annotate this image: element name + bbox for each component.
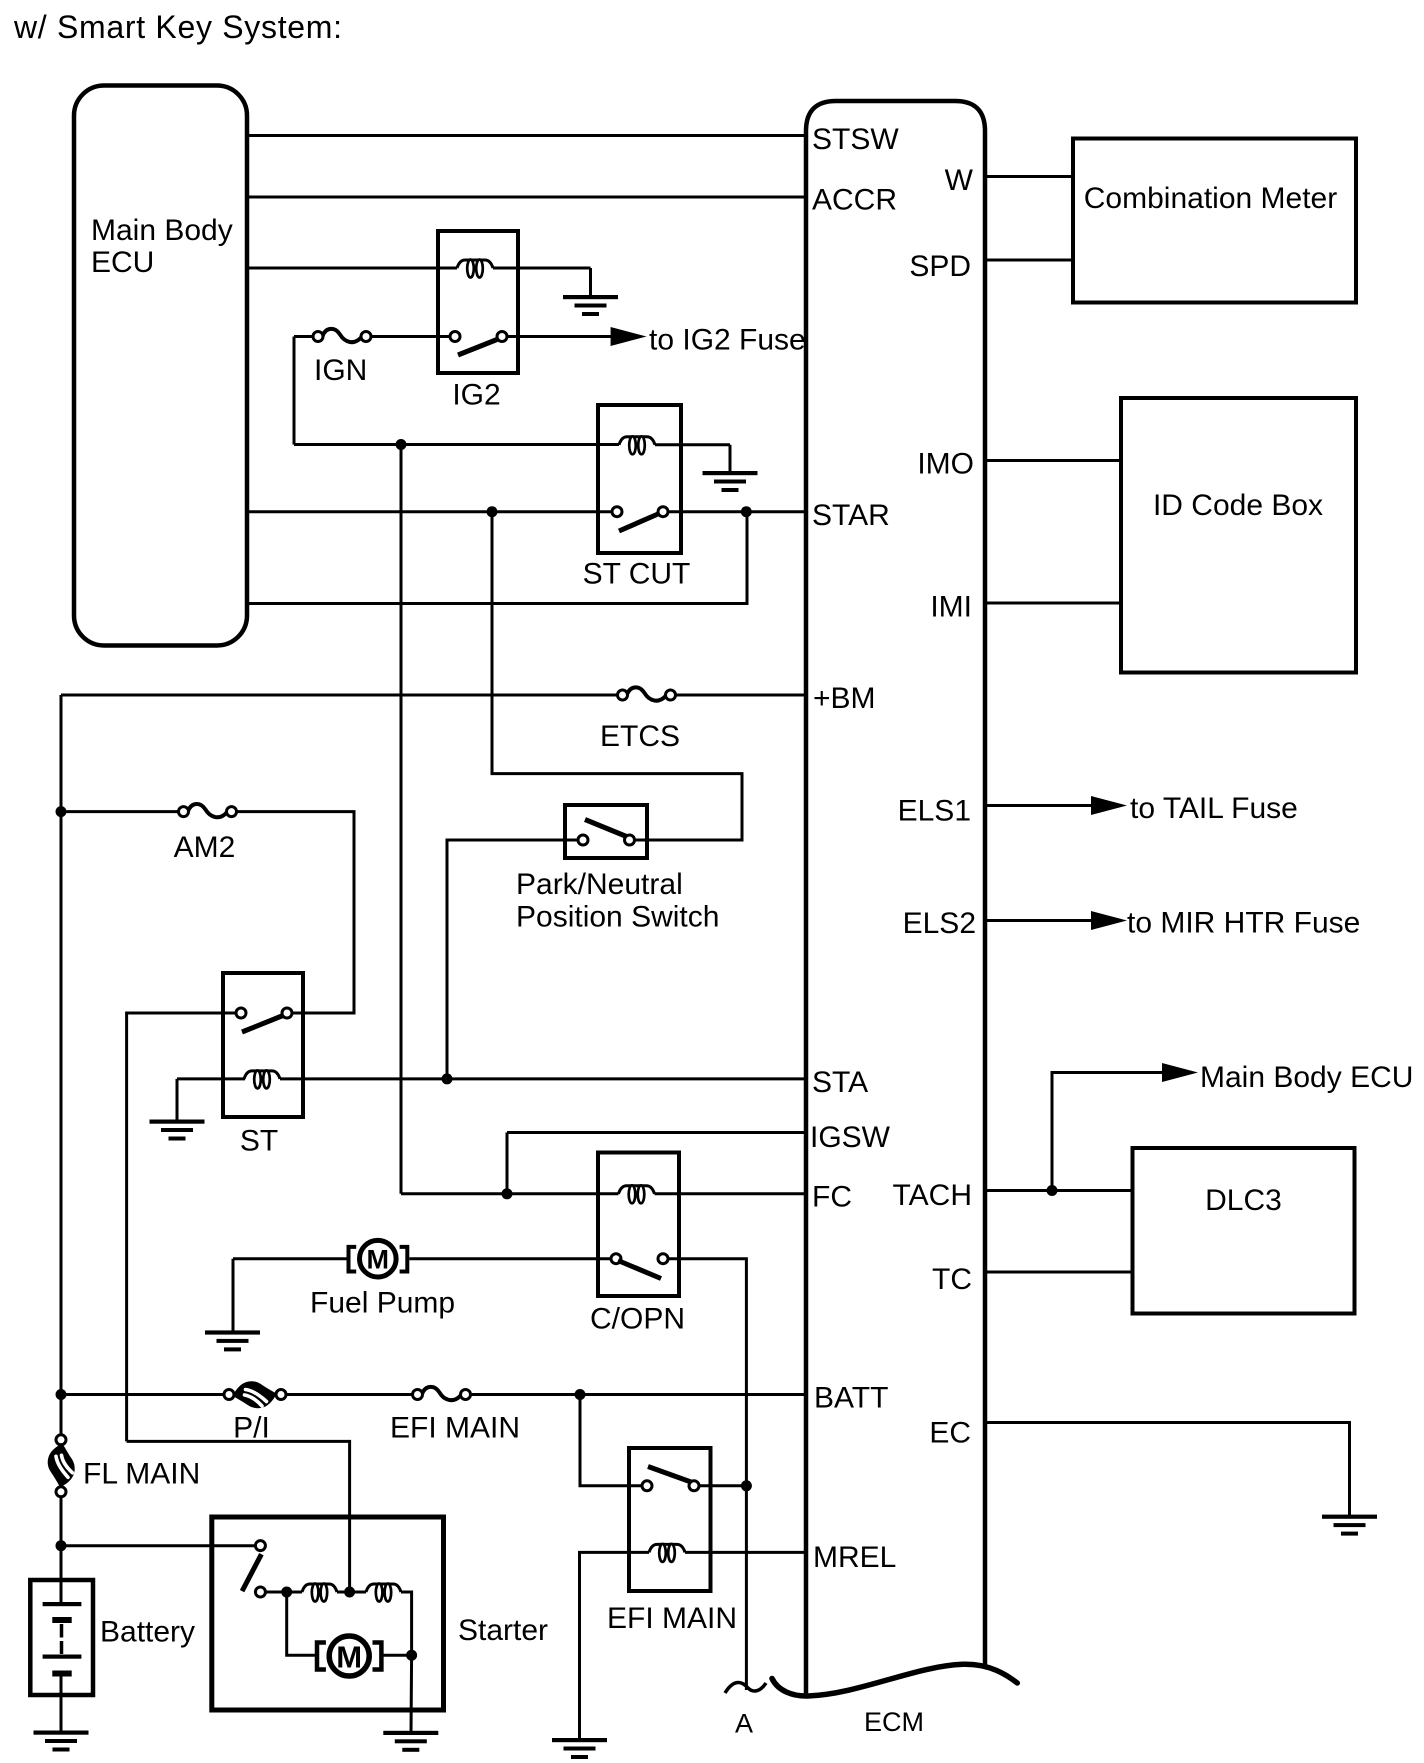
svg-text:DLC3: DLC3 (1205, 1184, 1282, 1217)
fuse AM2 (179, 804, 237, 817)
svg-text:Position Switch: Position Switch (516, 901, 719, 934)
ground battery ground (34, 1731, 89, 1752)
svg-text:BATT: BATT (814, 1382, 888, 1415)
wire TACH to MainBodyECU (1052, 1073, 1163, 1191)
svg-text:w/ Smart Key System:: w/ Smart Key System: (13, 9, 343, 45)
svg-text:Park/Neutral: Park/Neutral (516, 868, 683, 901)
fusible link FL MAIN (48, 1435, 75, 1497)
wire ST CUT coil feed (294, 443, 619, 446)
wire EFI switch to A wire (699, 1484, 746, 1487)
junction BATT left junction (56, 1389, 67, 1400)
svg-text:FL MAIN: FL MAIN (83, 1458, 200, 1491)
wire IG2 coil feed (247, 267, 457, 270)
arrow to IG2 Fuse (611, 327, 647, 346)
ECM box outline (open wavy bottom) (806, 101, 985, 1695)
ground IG2 coil ground (563, 295, 618, 316)
svg-text:to TAIL Fuse: to TAIL Fuse (1130, 792, 1298, 825)
svg-text:IG2: IG2 (452, 379, 500, 412)
relay ST CUT box (598, 405, 681, 553)
wire EC (985, 1423, 1350, 1517)
wire ELS2 (985, 919, 1092, 922)
wire W (985, 175, 1073, 178)
wire IG2 switch to arrow (507, 335, 612, 338)
DLC3 box (1133, 1148, 1355, 1314)
svg-text:ACCR: ACCR (812, 184, 897, 217)
relay ST CUT switch (612, 507, 668, 531)
wire BATT left (61, 1393, 229, 1396)
svg-text:ETCS: ETCS (600, 720, 680, 753)
wire C/OPN to motor (409, 1257, 611, 1260)
ground fuel pump ground (205, 1330, 260, 1351)
wire C/OPN to A wire (668, 1259, 746, 1690)
wire battery to ground (60, 1676, 63, 1733)
relay IG2 switch (450, 332, 507, 356)
svg-text:IGSW: IGSW (810, 1121, 891, 1154)
Battery box (30, 1580, 93, 1695)
wire motor left (233, 1257, 349, 1260)
fuse EFI MAIN (413, 1387, 471, 1400)
svg-text:C/OPN: C/OPN (590, 1303, 685, 1336)
junction solenoid dot1 (281, 1587, 292, 1598)
relay IG2 box (438, 231, 518, 373)
relay IG2 coil (457, 260, 493, 268)
svg-text:ELS1: ELS1 (898, 795, 971, 828)
relay EFI MAIN switch (642, 1467, 699, 1491)
wire MainBody to ST CUT switch (247, 510, 612, 513)
ground ST coil ground (150, 1120, 205, 1141)
junction STA junction (442, 1073, 453, 1084)
relay EFI MAIN box (629, 1448, 711, 1591)
junction STAR/PN junction (487, 506, 498, 517)
wire ST trunk to solenoid (127, 1441, 350, 1592)
svg-text:Main Body ECU: Main Body ECU (1200, 1061, 1413, 1094)
junction EFI relay junction (575, 1389, 586, 1400)
wire EFI relay switch feed (580, 1395, 642, 1486)
svg-text:IGN: IGN (314, 354, 367, 387)
wire ST switch left drop (127, 1013, 236, 1441)
svg-text:P/I: P/I (233, 1412, 270, 1445)
svg-text:EFI MAIN: EFI MAIN (390, 1412, 520, 1445)
junction motor out dot (406, 1650, 417, 1661)
starter solenoid coil 2 (366, 1584, 401, 1592)
relay EFI MAIN coil (649, 1544, 685, 1552)
fusible link P/I (224, 1381, 286, 1408)
fuel pump motor (349, 1240, 408, 1277)
wire IGSW (507, 1131, 806, 1134)
fuse IGN (313, 329, 371, 342)
starter switch (242, 1541, 265, 1597)
svg-text:TACH: TACH (893, 1179, 972, 1212)
wire STAR (668, 510, 806, 513)
wire IMI (985, 602, 1121, 605)
svg-text:STSW: STSW (812, 123, 899, 156)
arrow Main Body ECU arrow (1162, 1063, 1198, 1082)
ground EC ground (1322, 1515, 1377, 1536)
wire ST CUT ground drop (729, 445, 732, 473)
wire starter sw to coil (265, 1591, 286, 1594)
wire +BM feed (61, 694, 618, 697)
Main Body ECU box (74, 86, 247, 646)
junction IGN/STCUT junction (396, 439, 407, 450)
svg-text:EFI MAIN: EFI MAIN (607, 1602, 737, 1635)
wire left trunk (60, 695, 63, 1395)
svg-text:AM2: AM2 (174, 831, 236, 864)
relay ST switch (236, 1008, 292, 1032)
ECM bottom wave (772, 1664, 1017, 1696)
wire FL to battery (60, 1497, 63, 1602)
svg-text:ID Code Box: ID Code Box (1153, 489, 1323, 522)
svg-text:STAR: STAR (812, 499, 890, 532)
svg-text:ECM: ECM (864, 1707, 924, 1737)
svg-text:EC: EC (929, 1417, 971, 1450)
wire solenoid out (401, 1592, 412, 1655)
svg-text:ELS2: ELS2 (903, 907, 976, 940)
junction AM2 junction (56, 806, 67, 817)
svg-text:W: W (945, 164, 974, 197)
wire STAR to ParkNeutral (492, 512, 742, 840)
ID Code Box box (1121, 398, 1356, 673)
wire trunk to FL MAIN (60, 1395, 63, 1436)
junction starter junction (56, 1540, 67, 1551)
battery cells (43, 1602, 82, 1677)
svg-text:Battery: Battery (100, 1616, 195, 1649)
wire MainBody loop to STAR (247, 512, 747, 604)
wire ACCR (247, 196, 806, 199)
wire IGN drop (293, 337, 296, 445)
svg-text:M: M (367, 1245, 390, 1275)
relay ST CUT coil (619, 437, 655, 445)
relay C/OPN switch (611, 1254, 668, 1279)
wire IGSW drop (506, 1133, 509, 1194)
wire TACH (985, 1189, 1133, 1192)
wire ParkNeutral to STA (447, 840, 578, 1079)
wire solenoid link2 (337, 1591, 366, 1594)
wire TC (985, 1271, 1133, 1274)
wire IGN trunk down (400, 445, 403, 1194)
wire STA (280, 1077, 806, 1080)
wire BATT right (471, 1393, 806, 1396)
wire EFI coil ground wire (580, 1552, 650, 1740)
arrow to MIR HTR Fuse (1091, 911, 1127, 930)
Park/Neutral switch contacts (578, 820, 635, 846)
svg-text:STA: STA (812, 1066, 868, 1099)
svg-text:MREL: MREL (813, 1541, 896, 1574)
svg-text:ECU: ECU (91, 246, 154, 279)
relay ST box (223, 973, 303, 1117)
svg-text:ST: ST (240, 1125, 278, 1158)
wire IMO (985, 459, 1121, 462)
wire MREL (685, 1551, 806, 1554)
svg-text:FC: FC (812, 1181, 852, 1214)
arrow to TAIL Fuse (1091, 796, 1127, 815)
Combination Meter box (1073, 139, 1356, 303)
wire motor left leg (287, 1592, 317, 1655)
wire IG2 coil to ground (493, 267, 591, 270)
junction solenoid dot2 (344, 1587, 355, 1598)
ground ST CUT coil ground (703, 471, 758, 492)
ground EFI coil ground (552, 1738, 607, 1759)
svg-text:to MIR HTR Fuse: to MIR HTR Fuse (1127, 907, 1360, 940)
svg-text:M: M (336, 1640, 362, 1675)
svg-text:to IG2 Fuse: to IG2 Fuse (649, 324, 806, 357)
starter solenoid coil 1 (302, 1584, 337, 1592)
wire SPD (985, 259, 1073, 262)
wire starter feed (61, 1544, 255, 1547)
wire ELS1 (985, 804, 1092, 807)
svg-text:Main Body: Main Body (91, 214, 233, 247)
wire FC feed (401, 1192, 619, 1195)
wire AM2 to ST switch (237, 812, 355, 1013)
wire IGN fuse to IG2 (371, 335, 450, 338)
svg-text:Combination Meter: Combination Meter (1084, 182, 1337, 215)
wire BATT mid (286, 1393, 418, 1396)
svg-text:ST CUT: ST CUT (583, 558, 691, 591)
svg-text:A: A (735, 1709, 753, 1739)
relay ST coil (244, 1071, 280, 1079)
svg-text:IMI: IMI (930, 591, 972, 624)
ground starter ground (383, 1731, 438, 1752)
svg-text:TC: TC (932, 1263, 972, 1296)
wire STSW (247, 134, 806, 137)
wire IG2 ground drop (589, 268, 592, 297)
wire IGN feed corner (294, 335, 318, 338)
wire break A (725, 1683, 766, 1693)
wire FC (655, 1192, 807, 1195)
wire solenoid link1 (287, 1591, 302, 1594)
wire ST CUT coil to ground (655, 443, 730, 446)
wire ST coil left (177, 1077, 245, 1080)
junction TACH junction (1047, 1185, 1058, 1196)
svg-text:SPD: SPD (909, 250, 971, 283)
svg-text:IMO: IMO (917, 448, 974, 481)
starter motor (317, 1636, 381, 1676)
wire motor right leg (381, 1654, 411, 1657)
Park/Neutral Position Switch box (565, 805, 647, 858)
wire fuel pump gnd drop (232, 1259, 235, 1333)
svg-text:Starter: Starter (458, 1614, 548, 1647)
junction FC/IGSW junction (502, 1188, 513, 1199)
wire +BM right (676, 694, 807, 697)
svg-text:+BM: +BM (813, 682, 876, 715)
fuse ETCS (618, 687, 676, 700)
svg-text:Fuel Pump: Fuel Pump (310, 1287, 455, 1320)
junction A wire junction (741, 1480, 752, 1491)
relay C/OPN coil (619, 1186, 655, 1194)
relay C/OPN box (598, 1153, 679, 1297)
Starter box (212, 1517, 444, 1710)
junction STAR loop junction (741, 506, 752, 517)
wire ST gnd drop (176, 1079, 179, 1122)
wire AM2 feed (61, 810, 184, 813)
wire starter gnd drop (410, 1655, 414, 1733)
